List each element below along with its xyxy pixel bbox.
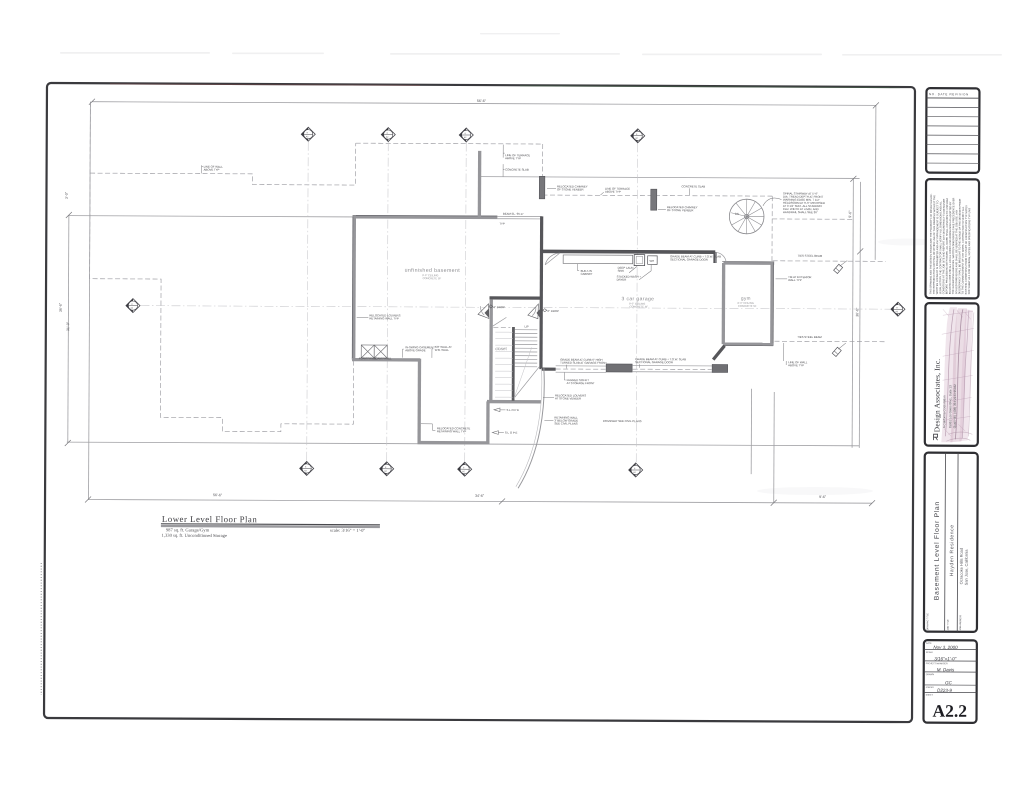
steel beam flag upper [834,261,848,274]
grid bubble A top [301,127,315,141]
svg-text:NO. DATE REVISION: NO. DATE REVISION [929,92,969,96]
grid bubble D top [631,129,645,143]
title underline [161,524,380,525]
grid bubble D bottom [629,463,643,477]
svg-text:9'-6": 9'-6" [848,210,852,218]
svg-text:CONCRETE SF: CONCRETE SF [738,304,757,308]
svg-text:56'-6": 56'-6" [477,99,487,103]
grid line B vertical [387,142,389,475]
svg-text:SEE CIVIL PLANS: SEE CIVIL PLANS [554,421,577,425]
note relocated chimney west [547,184,588,191]
svg-text:ABOVE GRADE: ABOVE GRADE [405,348,426,352]
svg-text:CONCRETE SLAB: CONCRETE SLAB [682,184,706,188]
svg-text:SECTIONAL GARAGE DOOR: SECTIONAL GARAGE DOOR [670,257,708,261]
spiral stair [729,199,764,234]
svg-text:M. Davis: M. Davis [937,667,955,672]
svg-text:TIES STEEL BEAM: TIES STEEL BEAM [798,254,823,258]
extension line west y215 [69,216,353,217]
wall gym west [722,263,726,344]
svg-text:Design Associates, Inc.: Design Associates, Inc. [932,359,941,433]
dimension line top [92,102,876,106]
scanner microtext dotted line bottom-left margin [40,563,42,695]
svg-text:36'-6": 36'-6" [59,302,63,312]
grid bubble B bottom [380,462,394,476]
retaining wall curve [518,368,544,488]
general notes block [925,179,979,298]
wall basement east / garage west [539,216,543,369]
svg-text:36'-6": 36'-6" [855,307,859,317]
long grade line y442 [67,442,859,446]
wall gym north [723,261,774,265]
note tie at exterior wall [776,275,812,282]
svg-text:CONCRETE SF: CONCRETE SF [629,305,648,309]
steel beam flag lower [832,343,846,357]
grid bubble A bottom [300,461,314,475]
driveway extension x753 [750,389,752,474]
stair up arrow diagonal [514,366,540,398]
logo monogram [934,434,938,440]
wall basement west [352,215,356,359]
note relocated chimney east [658,205,698,212]
svg-text:SHEET: SHEET [926,695,934,697]
svg-text:ABOVE TYP: ABOVE TYP [505,156,521,160]
grid line 1 horizontal [140,306,890,310]
svg-text:CONCRETE SF: CONCRETE SF [423,276,442,280]
garage south grade beam lines east [632,366,712,373]
svg-text:scale: 3/16" = 1'-0": scale: 3/16" = 1'-0" [330,528,366,533]
slab edge line y174.6 [481,177,860,179]
dimension extension x775.7 [773,392,776,503]
note line of wall above (right lower) [784,343,808,367]
svg-text:DRAWING TITLE: DRAWING TITLE [926,613,929,631]
dimension extension right x876 [874,105,877,259]
wall closet west [489,300,493,402]
dashed terrace vertical at pilaster A [542,144,544,176]
built-in cabinet garage [563,255,633,264]
wall storage east [486,401,490,444]
svg-text:UP: UP [524,325,528,329]
drop marker basement right door [543,309,559,313]
dimension tick marks [65,99,879,507]
drawing title block [924,453,978,632]
svg-text:gym: gym [741,296,751,301]
note 5/8 wall [432,345,452,358]
svg-text:ABOVE TYP: ABOVE TYP [788,363,804,367]
svg-text:DN: DN [735,212,739,216]
door basement south right [528,304,540,319]
garage south pier east [712,364,728,372]
svg-text:DRAWN: DRAWN [926,673,935,676]
svg-text:Quail Hill | (408) 354-2233: Quail Hill | (408) 354-2233 95032 [953,384,957,428]
dashed line of terrace right [542,195,772,196]
design associates rotated text [932,359,957,433]
svg-text:GC: GC [945,680,953,685]
note in-swing casement [403,345,436,358]
svg-text:TIES STEEL BEAM: TIES STEEL BEAM [797,335,822,339]
svg-text:RETAINING WALL TYP: RETAINING WALL TYP [369,316,399,320]
svg-text:W.B. WALL: W.B. WALL [435,348,450,352]
door basement south left [478,304,489,319]
svg-text:HANDRAIL SHALL SEE 36": HANDRAIL SHALL SEE 36" [783,210,818,214]
note grade beam at curb west [560,358,607,369]
wall basement south west segment [352,358,420,362]
sheet info block [923,640,976,723]
slope arrow upper [494,408,520,412]
svg-text:SECTIONAL GARAGE DOOR: SECTIONAL GARAGE DOOR [635,360,673,364]
dashed dimension 9'-6" [772,218,853,220]
dashed deck outline left [89,102,355,432]
closet understair faint treads [495,332,513,397]
scan streak artifacts top [60,33,1002,56]
stair direction diagonal 2 [514,347,532,398]
dimension line right x853.8 [852,179,853,448]
garage south pier middle [606,364,632,372]
svg-text:DATE: DATE [926,642,932,645]
svg-text:9'-6": 9'-6" [819,495,827,499]
chimney pilaster east [651,189,657,210]
svg-text:JOB TITLE: JOB TITLE [948,619,950,630]
svg-text:SCALE: SCALE [926,651,934,654]
svg-text:987 sq. ft. Garage/Gym: 987 sq. ft. Garage/Gym [166,527,210,532]
sheet border frame [44,83,915,722]
svg-text:31'-0": 31'-0" [66,321,70,331]
grid line D vertical [636,143,638,476]
note deep laundry sink [618,266,638,273]
scan ghost smudge right-bottom [757,487,873,495]
dimension extension left outer [89,102,91,500]
svg-text:TURNED SLAB AT GARAGE FRONT: TURNED SLAB AT GARAGE FRONT [560,361,607,365]
svg-text:6" DROP: 6" DROP [547,309,559,313]
water heater box [648,256,658,265]
grid line C vertical [465,142,467,475]
dashed line of wall above stepped [90,142,356,185]
svg-text:closet: closet [495,346,507,351]
svg-text:34'-6": 34'-6" [475,494,485,498]
svg-text:Nov 3, 2000: Nov 3, 2000 [933,645,958,650]
svg-text:3/16"=1'-0": 3/16"=1'-0" [934,656,956,661]
svg-text:JOB NO: JOB NO [926,687,934,689]
svg-text:OF STONE VENEER: OF STONE VENEER [557,187,584,191]
svg-text:FOAM PANEL: FOAM PANEL [374,356,392,360]
wall gym east [770,262,774,346]
svg-text:JOB ADDRESS: JOB ADDRESS [959,614,962,630]
svg-text:WALL TYP: WALL TYP [788,278,802,282]
note concrete slab (mid) [681,184,705,195]
dashed steel beam line lower [774,340,885,343]
svg-text:San Jose, California: San Jose, California [964,549,969,586]
wall garage northeast stub [713,252,716,263]
svg-text:56'-6": 56'-6" [213,493,223,497]
svg-text:ABOVE TYP: ABOVE TYP [204,168,220,172]
svg-text:Lower Level Floor Plan: Lower Level Floor Plan [162,514,257,524]
door leaf closet vestibule [493,317,507,326]
note built-in cabinet [578,264,593,276]
note stacked washer dryer [617,265,652,282]
watercolor house sketch [941,307,974,442]
note relocated concrete retaining wall [421,424,471,434]
svg-text:SLOPE: SLOPE [505,431,518,435]
wall storage west [417,359,421,443]
svg-text:Hayden Residence: Hayden Residence [949,524,955,576]
dashed steel beam line upper [773,260,886,263]
note line of wall above (top left) [202,165,224,174]
svg-text:D223-9: D223-9 [937,688,952,693]
grid line A vertical [307,142,309,475]
vent window boxes basement south wall [361,345,387,358]
svg-text:SLOPE: SLOPE [506,408,519,412]
laundry sink [634,255,645,266]
note grade beam at curb east [635,357,686,368]
wall closet south [487,400,541,404]
svg-text:SEE SHEET A0.1 FOR GENERAL NOT: SEE SHEET A0.1 FOR GENERAL NOTES AND SPE… [968,208,971,294]
svg-text:RETAINING WALL TYP: RETAINING WALL TYP [437,429,467,433]
stair west rail [512,327,515,401]
grid bubble C bottom [458,462,472,476]
svg-text:BEAM EL. 96.17: BEAM EL. 96.17 [503,212,524,216]
retaining wall curve inner [516,368,542,487]
beam double line basement north east [497,216,542,219]
svg-text:SINK: SINK [618,269,625,273]
wall storage south [418,441,490,445]
svg-text:A California Corporation: A California Corporation [942,395,946,428]
note line of terrace above (left) [503,145,530,161]
wall gym southwest diagonal [713,346,724,360]
svg-text:DRIVEWAY SEE CIVIL PLANS: DRIVEWAY SEE CIVIL PLANS [603,419,642,423]
door gym northwest [715,252,726,262]
garage south grade beam lines west [556,366,607,373]
svg-text:Basement Level Floor Plan: Basement Level Floor Plan [934,501,941,600]
dashed line of terrace top [356,142,543,145]
revision block [926,88,979,173]
svg-text:AT STONE VENEER: AT STONE VENEER [555,396,581,400]
colour fringe on top border [110,84,420,85]
note relocated louvers stone veneer [543,393,586,400]
chimney pilaster west [539,176,545,199]
note furred soffit [564,372,595,385]
svg-text:A2.2: A2.2 [933,701,968,721]
note spiral stairway block [763,191,825,214]
design associates logo block [925,303,979,446]
dimension line right x861 [859,182,860,448]
wall garage north [542,250,715,254]
stair treads [515,330,538,367]
svg-text:unfinished basement: unfinished basement [405,268,461,274]
note grade beam sectional garage door (north) [670,254,721,261]
grid bubble B top [381,128,395,142]
note line of terrace above (mid) [600,187,630,196]
note concrete slab (left) [503,164,529,177]
drop marker basement left door [489,305,505,309]
dashed garage door opening east [633,368,712,370]
grid bubble C top [459,128,473,142]
dimension line bottom [88,499,872,503]
svg-text:PROJECT MANAGER: PROJECT MANAGER [926,662,948,665]
svg-text:3'-0": 3'-0" [65,191,69,199]
svg-text:CONCRETE SLAB: CONCRETE SLAB [505,168,529,172]
grid bubble 1 left [126,299,140,313]
svg-text:OF STONE VENEER: OF STONE VENEER [667,208,694,212]
dimension line left inner [68,215,69,443]
svg-text:AT STORAGE FRONT: AT STORAGE FRONT [567,381,595,385]
svg-text:ABOVE TYP: ABOVE TYP [605,190,621,194]
dashed garage door opening west [556,368,606,370]
wall garage south west pier [542,368,556,371]
door garage northwest [545,253,560,265]
wall garage north dark edge [542,249,715,252]
slope arrow lower [492,431,518,435]
grid bubble 1 right [891,302,905,316]
note retaining wall below grade [544,415,578,425]
svg-text:WH: WH [649,259,654,263]
wall stub above basement [478,151,482,218]
note relocated louvers west wall [357,313,401,320]
wall basement south (door wall) [489,296,541,299]
svg-text:CABINET: CABINET [581,272,593,276]
svg-text:6" DROP: 6" DROP [493,305,505,309]
dashed terrace vertical right [771,196,773,262]
wall basement north [353,215,498,219]
svg-text:3 car garage: 3 car garage [621,296,654,302]
svg-text:DRYER: DRYER [617,278,627,282]
wall gym south [723,342,773,346]
svg-text:TYP: TYP [499,222,505,226]
